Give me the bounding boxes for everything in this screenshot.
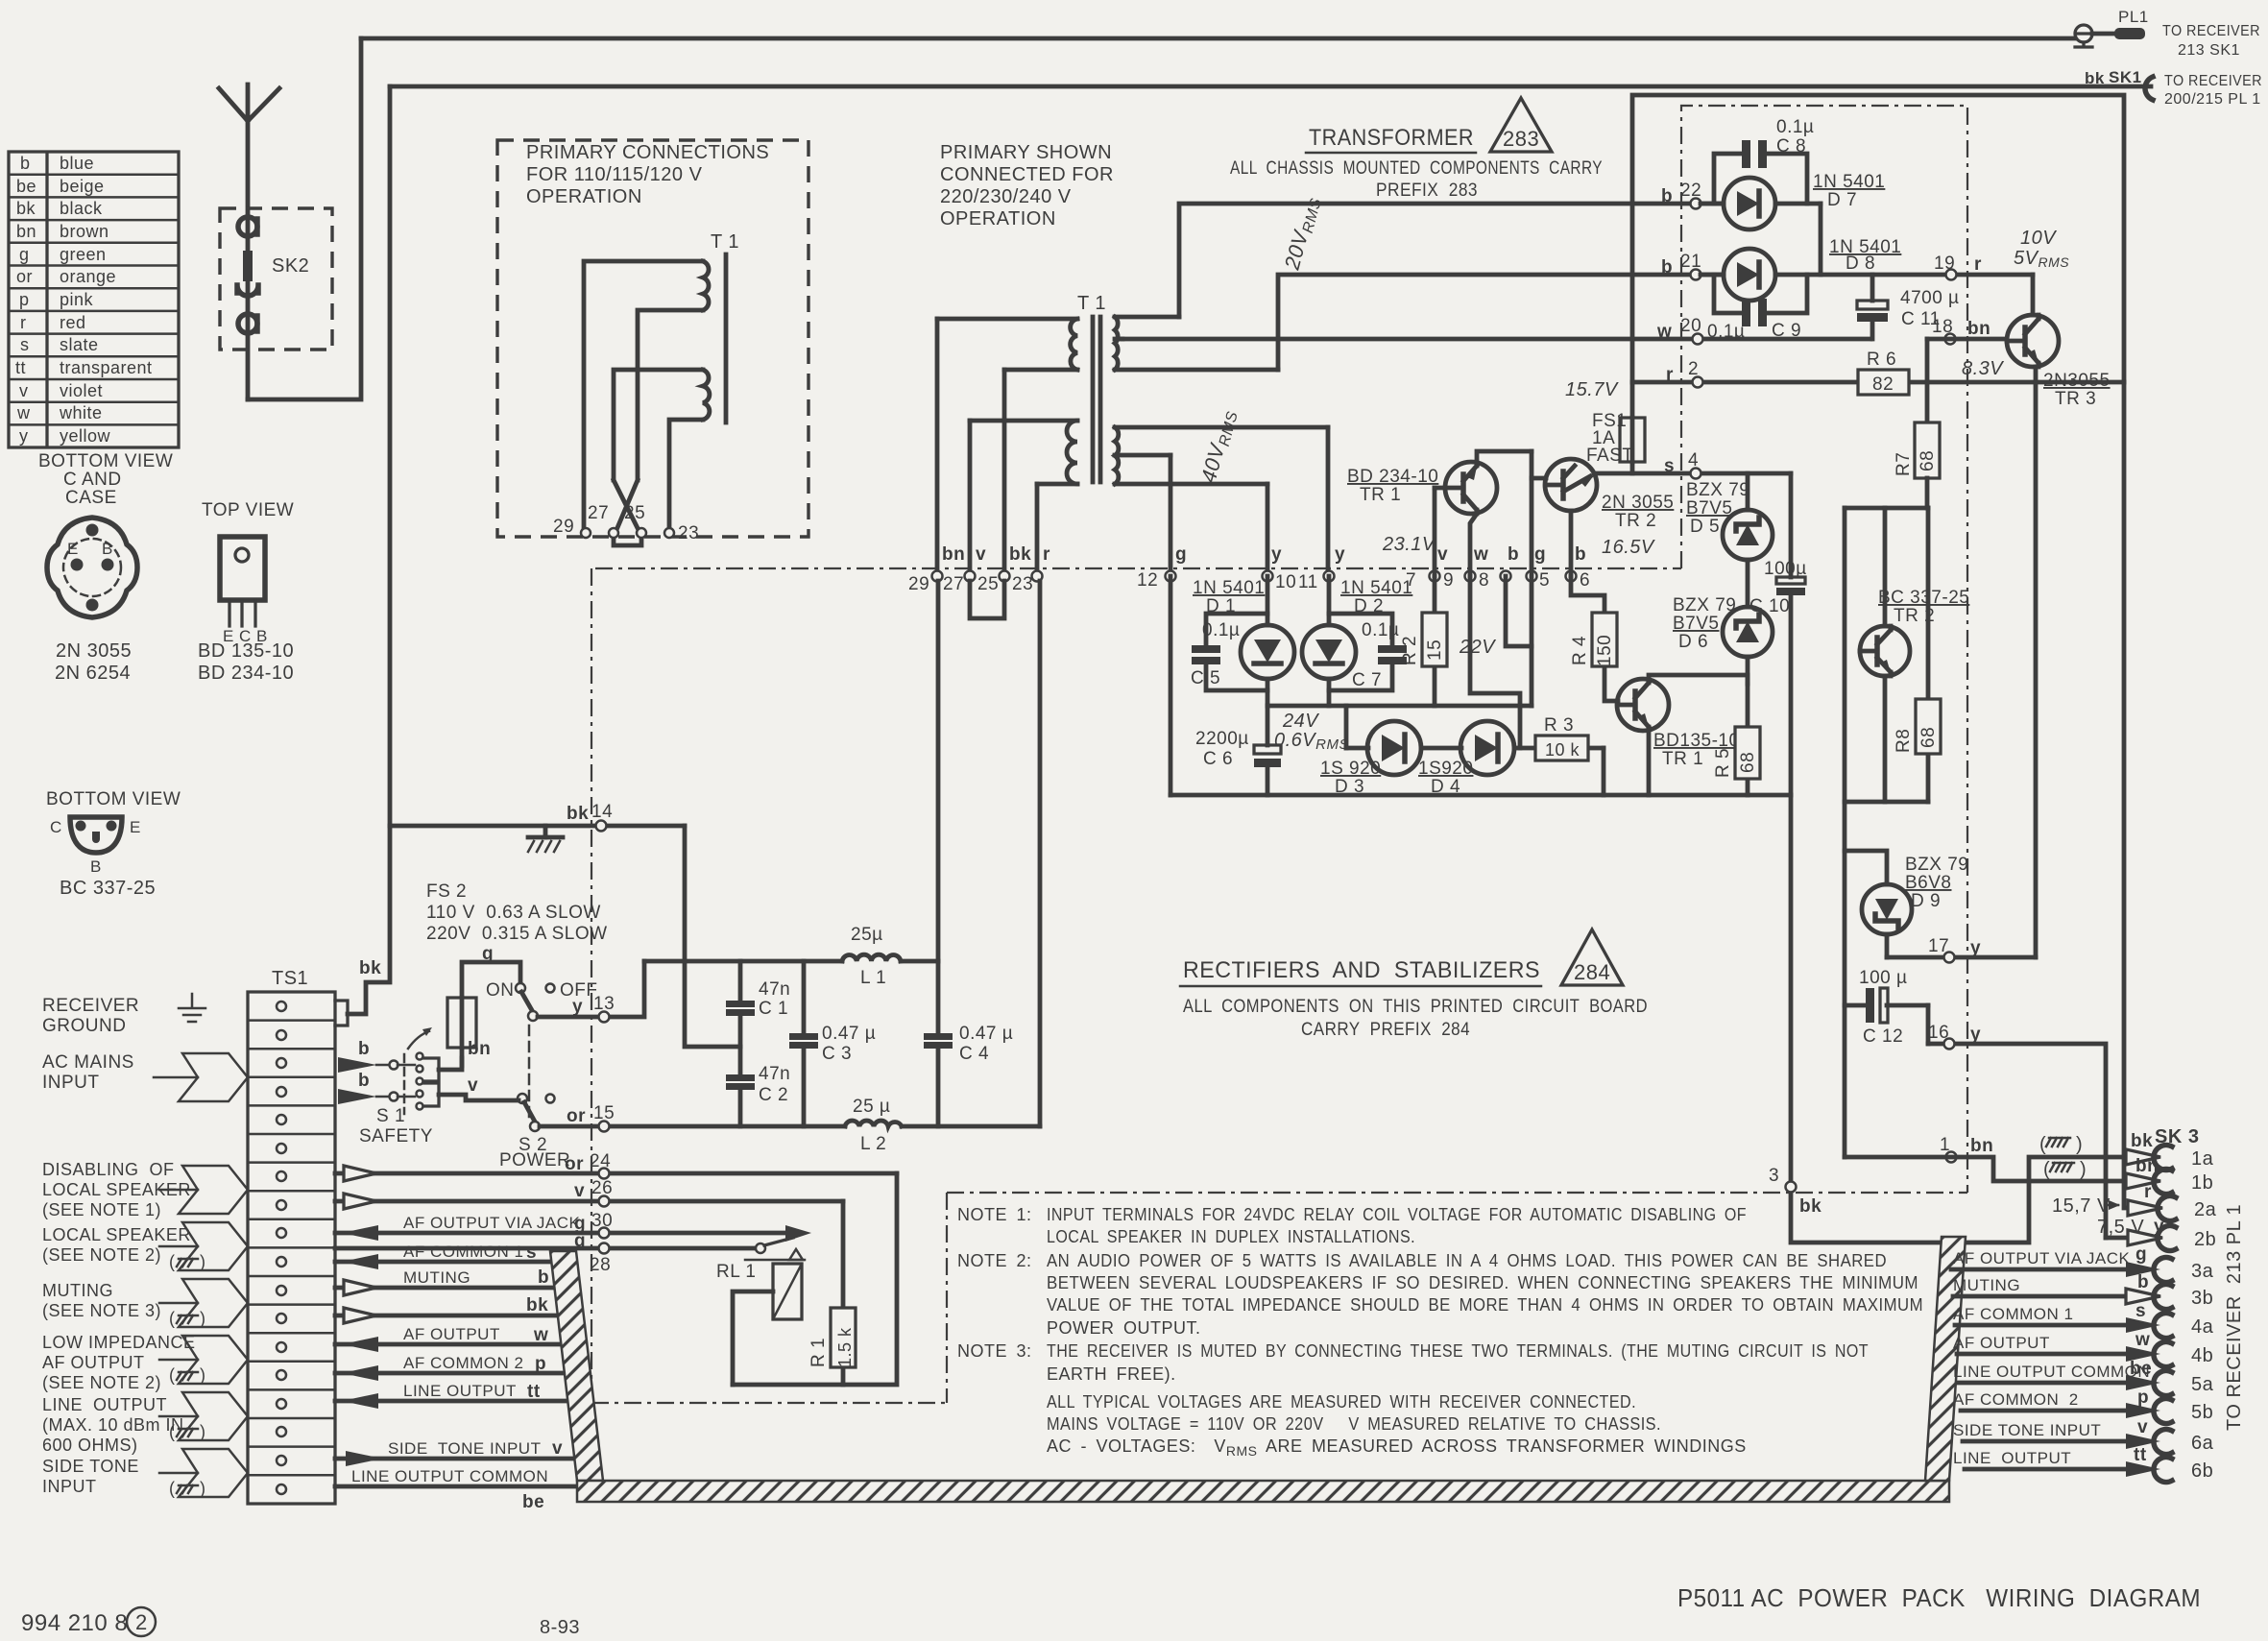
wire D4 to rail branch [1518,706,1523,748]
connector 2b [2106,1217,2216,1251]
capacitor C6 2200u [1195,706,1281,795]
resistor R6 82 [1858,350,1909,395]
svg-text:R 4: R 4 [1570,636,1590,665]
diode D1 [1241,576,1294,706]
wire TR2 collector down to terminal 6 [1569,511,1574,576]
svg-text:SAFETY: SAFETY [359,1126,433,1146]
svg-text:6: 6 [1580,570,1590,591]
svg-text:green: green [60,245,107,264]
svg-text:p: p [2137,1388,2149,1408]
svg-text:EARTH FREE).: EARTH FREE). [1047,1364,1176,1384]
diode D3 [1346,721,1421,775]
svg-text:p: p [19,290,30,309]
svg-text:13: 13 [593,994,615,1014]
svg-text:(MAX. 10 dBm IN: (MAX. 10 dBm IN [42,1415,184,1435]
svg-text:18: 18 [1932,317,1953,337]
wire 12 column to bottom rail [1169,576,1173,795]
T1 primary winding upper [937,319,1077,370]
svg-text:TR 1: TR 1 [1360,485,1401,505]
svg-text:v: v [19,381,29,400]
svg-text:24V: 24V [1282,711,1319,732]
svg-text:bn: bn [1967,319,1991,339]
svg-text:8-93: 8-93 [540,1617,580,1638]
svg-text:AF OUTPUT: AF OUTPUT [42,1353,145,1372]
terminal 29 aux [581,528,591,538]
svg-text:SIDE TONE: SIDE TONE [42,1457,139,1476]
svg-text:5VRMS: 5VRMS [2014,248,2069,270]
svg-text:C 4: C 4 [959,1044,989,1064]
terminal strip TS1 [248,968,348,1504]
wire b22 row [1179,204,1724,317]
svg-text:g: g [482,944,494,964]
svg-text:BOTTOM VIEW: BOTTOM VIEW [38,451,173,471]
wire terminal 7 column v [1433,488,1437,576]
svg-text:283: 283 [1503,127,1539,151]
wire jumper 27-25 aux [614,534,641,545]
wire 6a SIDE TONE INPUT [1953,1417,2214,1455]
svg-text:violet: violet [60,381,103,400]
svg-text:25µ: 25µ [851,925,883,945]
node 22V wire from terminal 9 [1470,576,1520,706]
svg-text:B6V8: B6V8 [1905,873,1951,893]
wire g30 row AF OUTPUT VIA JACK [335,1231,785,1236]
ground chassis at bk14 [528,826,563,852]
svg-text:15: 15 [593,1103,615,1123]
svg-text:TRANSFORMER: TRANSFORMER [1309,125,1474,151]
switch S1 actuate arrow [408,1031,429,1049]
svg-text:w: w [1656,322,1672,342]
svg-text:): ) [200,1309,206,1328]
svg-text:AF COMMON 2: AF COMMON 2 [1953,1390,2079,1409]
svg-text:6a: 6a [2191,1433,2214,1454]
switch S2a ON/OFF [486,980,598,1021]
svg-text:bk: bk [1799,1196,1822,1217]
svg-text:bn: bn [16,222,36,241]
terminal 20 [1693,334,1703,345]
svg-text:PRIMARY CONNECTIONS: PRIMARY CONNECTIONS [526,142,769,163]
svg-text:bk: bk [567,804,589,824]
svg-text:bk: bk [526,1295,548,1315]
svg-text:b: b [1508,544,1519,565]
svg-text:BD 135-10: BD 135-10 [198,640,294,662]
svg-text:AC MAINS: AC MAINS [42,1052,134,1073]
fuse FS1 [1586,382,1645,473]
svg-text:17: 17 [1928,936,1949,956]
wire bottom rail PCB284 [1170,793,1791,798]
svg-text:(SEE NOTE 1): (SEE NOTE 1) [42,1200,161,1219]
wire y11 column [1326,427,1331,570]
terminal 14 [596,821,607,832]
svg-text:P5011 AC POWER PACK WIRING: P5011 AC POWER PACK WIRING DIAGRAM [1677,1583,2201,1612]
svg-text:2: 2 [135,1610,148,1634]
svg-text:s: s [1664,456,1675,476]
wire SK1 down to TS1 terminal 1 [348,86,390,1014]
svg-text:CONNECTED FOR: CONNECTED FOR [940,164,1114,185]
svg-text:INPUT: INPUT [42,1477,97,1496]
wire y13 row [538,961,644,1017]
wire terminal 3 bk to 1a row [1791,795,2125,1243]
svg-text:4b: 4b [2191,1345,2213,1366]
svg-text:5b: 5b [2191,1402,2213,1423]
svg-text:CARRY PREFIX 284: CARRY PREFIX 284 [1301,1020,1470,1040]
svg-text:213 SK1: 213 SK1 [2178,42,2240,59]
svg-text:(SEE NOTE 2): (SEE NOTE 2) [42,1373,161,1392]
switch S1 dashed link [403,1054,406,1114]
svg-text:C 12: C 12 [1863,1026,1903,1047]
wire 5b AF COMMON 2 [1953,1388,2213,1424]
svg-text:bn: bn [1970,1136,1993,1156]
svg-text:bk: bk [2085,69,2105,87]
wire 23 column down to L2 [1038,581,1043,1126]
svg-text:B: B [102,540,113,558]
svg-text:AF OUTPUT VIA JACK: AF OUTPUT VIA JACK [403,1214,581,1232]
svg-text:bk: bk [16,199,36,218]
wire 27 column [968,421,973,570]
ground paren symbol line output [169,1422,206,1441]
svg-text:22: 22 [1680,181,1701,201]
wire rail 529 [1845,506,1928,511]
svg-text:FOR 110/115/120 V: FOR 110/115/120 V [526,164,703,185]
svg-text:10 k: 10 k [1545,740,1580,760]
chassis boundary dash-dot long lower row [947,1192,1967,1194]
svg-text:R8: R8 [1894,729,1914,753]
winding P1 aux [584,261,709,533]
terminal 23 [1032,571,1043,582]
svg-text:TR 3: TR 3 [2055,389,2096,409]
svg-text:INPUT TERMINALS FOR 24VDC RELA: INPUT TERMINALS FOR 24VDC RELAY COIL VOL… [1047,1205,1747,1224]
svg-text:TO RECEIVER: TO RECEIVER [2162,23,2260,39]
terminal 27 [965,571,976,582]
svg-text:bk: bk [2131,1131,2153,1151]
svg-text:26: 26 [591,1178,613,1198]
svg-text:1N 5401: 1N 5401 [1193,578,1265,598]
svg-text:v: v [552,1438,563,1459]
terminal 16 [1944,1039,1955,1050]
relay coil RL1 [773,1264,802,1319]
capacitor C3 0.47u [789,961,876,1126]
svg-text:3b: 3b [2191,1288,2213,1309]
svg-text:E: E [130,818,141,836]
svg-text:OPERATION: OPERATION [526,186,642,207]
svg-text:C 10: C 10 [1749,596,1790,616]
ground paren symbol low imp [169,1365,206,1385]
svg-text:25 µ: 25 µ [853,1097,890,1117]
svg-text:2N 3055: 2N 3055 [1602,493,1674,513]
svg-text:1S920: 1S920 [1418,759,1473,779]
svg-text:p: p [535,1354,546,1374]
diode D7 [1701,178,1821,229]
T1 secondary winding lower [1115,427,1328,484]
svg-text:pink: pink [60,290,94,309]
svg-text:b: b [358,1071,370,1091]
svg-text:red: red [60,313,86,332]
svg-text:24: 24 [590,1151,611,1171]
connector arrow side tone [179,1449,248,1497]
svg-text:): ) [200,1252,206,1271]
terminal 27 aux [609,528,618,538]
connector arrow line output [179,1392,248,1440]
svg-text:25: 25 [624,503,645,523]
svg-text:): ) [2076,1134,2083,1155]
svg-text:15.7V: 15.7V [1565,379,1619,400]
terminal 26 [599,1196,610,1207]
svg-text:R 3: R 3 [1544,715,1574,736]
terminal 11 [1324,571,1335,582]
svg-text:R 6: R 6 [1867,350,1896,370]
capacitor C7 [1329,614,1407,690]
svg-text:r: r [1043,544,1050,565]
svg-text:68: 68 [1918,727,1939,748]
svg-text:bn: bn [942,544,965,565]
svg-text:6b: 6b [2191,1460,2213,1482]
connector 1a [2126,1131,2214,1170]
terminal 19 [1946,270,1957,280]
svg-text:T 1: T 1 [711,231,739,253]
terminal 23 aux [664,528,674,538]
wire outer loop top (bk feed) [1632,95,2124,382]
svg-text:C 5: C 5 [1191,668,1220,688]
wire LINE OUTPUT COMMON row [335,1484,576,1489]
AC mains arrow b lower [338,1089,376,1104]
svg-text:22V: 22V [1459,637,1496,658]
wire D3 branch down [1344,706,1349,748]
svg-text:v: v [468,1075,478,1096]
terminal 28 [599,1243,610,1254]
transistor package TO-3 (2N3055 / 2N6254) [47,518,137,617]
svg-text:4: 4 [1688,450,1699,471]
ground paren symbol local speaker [169,1252,206,1271]
transformer T1 core [1093,317,1100,482]
svg-text:g: g [2135,1244,2147,1265]
svg-text:B7V5: B7V5 [1686,498,1732,519]
svg-text:PREFIX 283: PREFIX 283 [1376,181,1478,201]
svg-text:R7: R7 [1894,452,1914,476]
svg-text:AN AUDIO POWER OF 5 WATTS IS A: AN AUDIO POWER OF 5 WATTS IS AVAILABLE I… [1047,1251,1887,1270]
svg-text:0.1µ: 0.1µ [1776,117,1814,137]
svg-text:r: r [1974,254,1982,275]
terminal 3 [1786,1182,1797,1193]
switch S2b [518,1094,555,1131]
connector SK1 [2085,68,2153,100]
svg-text:LINE OUTPUT COMMON: LINE OUTPUT COMMON [1953,1363,2150,1381]
wire C12 to 16 row [1926,1005,1931,1044]
svg-text:PL1: PL1 [2118,8,2149,26]
dashed link S2 [528,1026,531,1119]
wire D3-D4 [1421,746,1461,751]
svg-text:TO RECEIVER 213 PL 1: TO RECEIVER 213 PL 1 [2224,1204,2245,1431]
svg-text:C 6: C 6 [1203,749,1233,769]
svg-text:NOTE 1:: NOTE 1: [957,1205,1032,1224]
svg-text:v: v [976,544,986,565]
svg-text:SK2: SK2 [272,255,309,277]
terminal 7 [1430,571,1440,582]
svg-text:LOCAL SPEAKER IN DUPLEX INSTAL: LOCAL SPEAKER IN DUPLEX INSTALLATIONS. [1047,1227,1415,1246]
svg-text:100µ: 100µ [1764,559,1807,579]
svg-text:0.47 µ: 0.47 µ [959,1024,1013,1044]
wire 3b MUTING [1953,1272,2213,1310]
svg-text:r: r [1666,365,1674,385]
capacitor C5 [1191,614,1267,690]
svg-text:RECEIVER: RECEIVER [42,996,139,1016]
wire TR1 chassis emitter to TR2 base node [1477,451,1532,462]
svg-text:r: r [20,313,27,332]
svg-text:w: w [533,1325,548,1345]
svg-text:LINE OUTPUT: LINE OUTPUT [403,1382,517,1400]
svg-text:82: 82 [1872,374,1894,395]
svg-text:(: ( [169,1252,176,1271]
wire y10 column [1266,484,1270,570]
wire PL1 top line [361,36,2075,41]
svg-text:14: 14 [591,802,613,822]
svg-text:D 8: D 8 [1846,253,1875,274]
terminal 1 [1946,1152,1957,1163]
svg-text:8.3V: 8.3V [1962,358,2004,379]
svg-text:y: y [1271,544,1282,565]
svg-text:s: s [20,335,30,354]
svg-text:VALUE OF THE TOTAL IMPEDANCE S: VALUE OF THE TOTAL IMPEDANCE SHOULD BE M… [1047,1295,1923,1315]
wire mid rail 24V [1267,704,1532,709]
wire TR2 emitter down [1883,676,1888,802]
wire 15.7V rail down to 2a [2124,382,2126,1208]
wire g28 row [335,1246,757,1251]
svg-text:4a: 4a [2191,1316,2214,1338]
svg-text:40VRMS: 40VRMS [1196,407,1242,486]
svg-text:GROUND: GROUND [42,1016,126,1036]
zener diode D5 [1723,473,1773,607]
wire terminal 5 column (g) [1530,451,1534,706]
svg-text:SIDE TONE INPUT: SIDE TONE INPUT [1953,1421,2101,1439]
ground paren symbol side tone [169,1479,206,1498]
resistor R1 1.5k [808,1308,856,1385]
svg-text:3a: 3a [2191,1261,2214,1282]
svg-text:b: b [2137,1272,2149,1292]
svg-text:y: y [572,997,583,1017]
transistor TR3 2N3055 [2007,315,2059,367]
svg-text:1b: 1b [2191,1172,2213,1194]
transistor package BC337-25 [50,817,141,876]
chassis boundary dash-dot bottom-left [591,1402,947,1404]
transistor TR2 BC337-25 [1860,626,1910,676]
svg-text:): ) [2080,1159,2087,1180]
svg-text:600 OHMS): 600 OHMS) [42,1436,138,1455]
svg-text:): ) [200,1365,206,1385]
note text block [957,1205,1923,1459]
svg-text:(: ( [169,1422,176,1441]
svg-text:25: 25 [977,574,999,594]
svg-text:BC 337-25: BC 337-25 [1878,588,1969,608]
svg-text:1.5 k: 1.5 k [835,1327,855,1367]
wire b row MUTING [335,1286,556,1291]
svg-text:w: w [16,403,31,422]
svg-text:1: 1 [1940,1135,1950,1155]
diode D2 [1302,576,1356,706]
node wire R6-R7-18 [1925,339,1930,422]
svg-text:y: y [1970,938,1981,958]
svg-text:or: or [567,1106,586,1126]
terminal 25 [1000,571,1010,582]
svg-text:30: 30 [591,1211,613,1231]
svg-text:1N 5401: 1N 5401 [1813,172,1885,192]
svg-text:19: 19 [1934,253,1955,274]
terminal 6 [1566,571,1577,582]
svg-text:LINE OUTPUT: LINE OUTPUT [42,1395,167,1414]
wire bk14 row [390,824,685,829]
terminal 24 [599,1169,610,1179]
wire w20 row [1122,337,1870,342]
svg-text:2200µ: 2200µ [1195,729,1249,749]
cable bundle hatched bottom band [577,1481,1949,1502]
svg-text:y: y [19,426,29,446]
wire s row AF COMMON 1 [335,1260,553,1265]
fuse FS2 [447,962,520,1066]
svg-text:or: or [565,1154,584,1174]
svg-text:0.6VRMS: 0.6VRMS [1274,730,1349,753]
svg-text:brown: brown [60,222,109,241]
terminal 12 [1166,571,1176,582]
svg-text:s: s [526,1243,537,1263]
svg-text:v: v [2137,1417,2148,1437]
svg-text:L 1: L 1 [860,968,886,988]
wire w row AF OUTPUT [335,1342,562,1347]
svg-text:21: 21 [1680,252,1701,272]
svg-text:100 µ: 100 µ [1859,968,1907,988]
cable bundle hatched left strip [550,1251,603,1481]
svg-text:C 2: C 2 [759,1085,788,1105]
dashed box primary connections 110V [497,140,808,537]
wire relay bottom rail [733,1173,897,1385]
connector PL1 [2075,8,2149,47]
svg-text:BZX 79: BZX 79 [1686,480,1749,500]
wire 29 column down to L1 [936,581,941,961]
winding P2 aux [614,370,710,533]
svg-text:g: g [19,245,30,264]
svg-text:tt: tt [527,1382,541,1402]
svg-text:y: y [2154,1217,2164,1237]
svg-text:b: b [1661,186,1673,206]
svg-text:27: 27 [943,574,964,594]
svg-text:white: white [59,403,103,422]
svg-text:4700 µ: 4700 µ [1900,288,1960,308]
wire TR3 emitter down [2034,367,2039,957]
terminal 25 aux [637,528,646,538]
svg-text:1N 5401: 1N 5401 [1340,578,1412,598]
svg-text:23: 23 [1012,574,1033,594]
terminal 8 [1501,571,1511,582]
T1 primary winding lower [970,421,1077,484]
svg-text:RECTIFIERS AND STABILIZERS: RECTIFIERS AND STABILIZERS [1183,957,1540,983]
terminal 9 [1465,571,1476,582]
wire 19 to TR3 collector [2031,275,2036,315]
svg-text:15: 15 [1425,640,1445,661]
capacitor C2 47n [726,1064,790,1126]
svg-text:bn: bn [2135,1156,2159,1176]
svg-text:D 7: D 7 [1827,190,1857,210]
chassis boundary dash-dot upper box [1681,106,1967,1193]
terminal 21 [1691,270,1701,280]
svg-text:INPUT: INPUT [42,1073,100,1093]
wire bk row [335,1314,559,1318]
svg-text:NOTE 3:: NOTE 3: [957,1341,1032,1361]
svg-text:2N 3055: 2N 3055 [56,640,132,662]
svg-text:(SEE NOTE 2): (SEE NOTE 2) [42,1245,161,1265]
svg-text:r: r [2144,1182,2152,1202]
ground paren symbol muting [169,1309,206,1328]
wire TR1 collector to D6 junction [1649,675,1748,684]
svg-text:S 1: S 1 [376,1106,405,1126]
svg-text:C 9: C 9 [1772,321,1801,341]
terminal 10 [1263,571,1273,582]
resistor R7 68 [1894,422,1940,478]
